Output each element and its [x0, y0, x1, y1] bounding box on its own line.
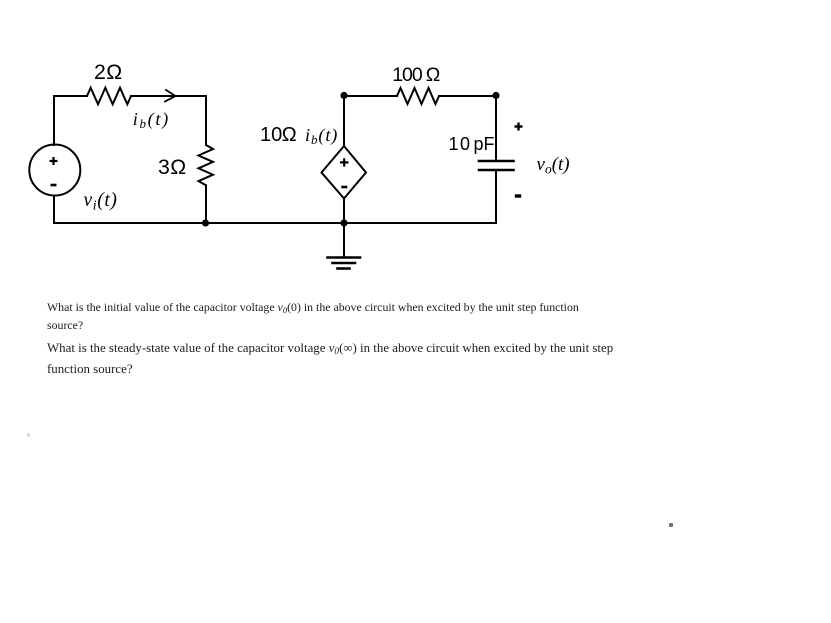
svg-text:100: 100	[392, 64, 423, 86]
svg-text:Ω: Ω	[106, 60, 122, 84]
svg-text:pF: pF	[474, 134, 495, 154]
svg-text:ib(t): ib(t)	[133, 109, 170, 131]
svg-text:3: 3	[158, 155, 170, 179]
svg-text:ib(t): ib(t)	[305, 125, 338, 147]
svg-text:10: 10	[260, 124, 282, 146]
svg-text:Ω: Ω	[170, 155, 186, 179]
svg-text:Ω: Ω	[282, 124, 297, 146]
svg-text:2: 2	[94, 60, 106, 84]
svg-text:vi(t): vi(t)	[84, 190, 118, 214]
svg-text:vo(t): vo(t)	[537, 154, 570, 177]
svg-text:Ω: Ω	[426, 64, 441, 86]
svg-text:10: 10	[449, 134, 472, 154]
